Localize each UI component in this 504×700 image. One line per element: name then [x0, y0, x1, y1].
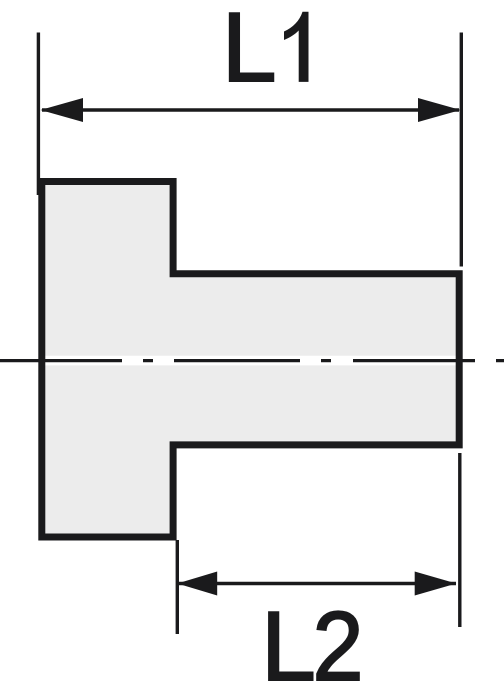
arrowhead L2 left [177, 572, 217, 596]
svg-text:L: L [222, 0, 277, 102]
extension line left (L2) [176, 540, 179, 634]
part outline [42, 182, 459, 538]
dimension line L2 [178, 582, 456, 585]
part body fill (stepped fitting profile) [42, 182, 459, 538]
centerline (dash-dot) [0, 359, 504, 362]
arrowhead L1 right [418, 98, 461, 122]
label L1: digit 1 (custom glyph) [284, 12, 309, 82]
extension line right (L1) [460, 33, 463, 267]
arrowhead L2 right [415, 572, 457, 596]
svg-text:2: 2 [313, 591, 364, 700]
arrowhead L1 left [41, 98, 84, 122]
extension line right (L2) [458, 453, 461, 627]
centerline white halo [0, 356, 504, 366]
svg-text:L: L [261, 591, 316, 700]
dimension line L1 [42, 108, 459, 111]
extension line left (L1) [37, 33, 40, 196]
